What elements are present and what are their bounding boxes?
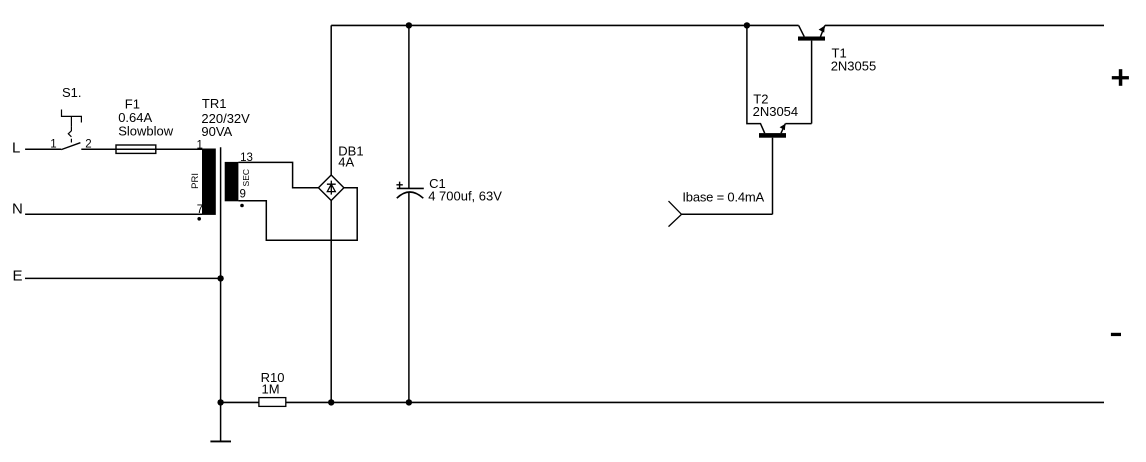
svg-text:L: L	[12, 140, 20, 157]
wire T2 emitter to T1 base	[785, 123, 811, 125]
transformer TR1 primary winding bar	[202, 149, 216, 215]
transistor T1 collector	[799, 25, 805, 36]
transistor T2 base lead	[772, 138, 774, 215]
wire N terminal to TR1 pin 7	[25, 213, 202, 215]
wire TR1 pin 9 to bridge right vertex	[238, 188, 357, 240]
svg-text:9: 9	[240, 188, 246, 200]
wire DB1 top vertex to top rail	[330, 25, 332, 175]
capacitor C1 plus polarity mark	[396, 182, 402, 188]
node junction dot C1 top	[406, 22, 412, 28]
Ibase input connector chevron	[669, 201, 682, 227]
wire DB1 bottom vertex to bottom rail	[330, 201, 332, 403]
transistor T2 collector wire from junction	[747, 25, 765, 133]
transistor T1 emitter	[821, 25, 825, 36]
switch S1 actuator dashed zigzag	[68, 126, 71, 142]
ground symbol	[210, 440, 231, 442]
wire E terminal to earth line	[25, 277, 221, 279]
svg-text:4 700uf, 63V: 4 700uf, 63V	[428, 189, 502, 204]
svg-text:1: 1	[50, 138, 56, 150]
transformer TR1 primary polarity dot	[197, 217, 201, 221]
svg-text:4A: 4A	[338, 154, 354, 169]
svg-text:1: 1	[197, 139, 203, 151]
wire switch pin 2 to fuse and to TR1 pin 1	[81, 148, 202, 150]
transformer TR1 core / earth line	[220, 147, 222, 441]
capacitor C1 top plate	[397, 187, 424, 189]
transistor T1 emitter arrow	[819, 26, 825, 33]
svg-text:PRI: PRI	[190, 173, 201, 189]
svg-text:N: N	[12, 201, 23, 218]
transistor T2 emitter arrow	[780, 124, 786, 131]
transistor T2 emitter	[781, 124, 785, 134]
svg-text:Ibase = 0.4mA: Ibase = 0.4mA	[682, 189, 764, 204]
wire top rail left segment	[331, 24, 798, 26]
fuse F1 body	[116, 145, 156, 153]
node junction dot C1 bottom	[406, 399, 412, 405]
wire top rail right segment	[825, 24, 1104, 26]
wire bottom rail right segment	[286, 401, 1104, 403]
wire Ibase connector to T2 base	[682, 213, 773, 215]
svg-text:1M: 1M	[262, 381, 280, 396]
wire TR1 pin 13 to bridge left vertex	[238, 162, 318, 187]
svg-text:TR1: TR1	[202, 96, 227, 111]
node junction dot E on earth line	[217, 275, 223, 281]
svg-text:SEC: SEC	[241, 169, 251, 186]
transistor T1 base bar	[798, 37, 825, 41]
svg-text:2N3055: 2N3055	[831, 58, 877, 73]
transformer TR1 secondary winding bar	[225, 162, 239, 201]
svg-text:2N3054: 2N3054	[753, 104, 799, 119]
capacitor C1 curved plate	[397, 192, 424, 198]
output minus terminal	[1111, 333, 1121, 336]
transistor T1 base lead	[811, 41, 813, 124]
output plus terminal	[1112, 69, 1129, 86]
transformer TR1 secondary polarity dot	[240, 204, 244, 208]
svg-text:E: E	[13, 268, 23, 285]
resistor R10 body	[259, 398, 286, 407]
bridge rectifier DB1 inner diode	[327, 181, 336, 195]
svg-text:Slowblow: Slowblow	[118, 123, 174, 138]
wire bottom rail left segment	[221, 401, 259, 403]
svg-text:90VA: 90VA	[201, 124, 232, 139]
transistor T2 base bar	[759, 133, 786, 138]
wire L terminal to switch pin 1	[25, 148, 61, 150]
svg-text:S1.: S1.	[62, 85, 82, 100]
capacitor C1 top lead	[408, 25, 410, 188]
bridge rectifier DB1 diamond	[318, 175, 344, 201]
switch S1 blade	[61, 143, 80, 150]
node junction dot DB1 bottom	[328, 399, 334, 405]
node junction dot ground-rail	[217, 399, 223, 405]
capacitor C1 bottom lead	[408, 193, 410, 403]
node junction dot T2 collector branch	[744, 22, 750, 28]
switch S1 actuator bracket	[62, 110, 82, 127]
